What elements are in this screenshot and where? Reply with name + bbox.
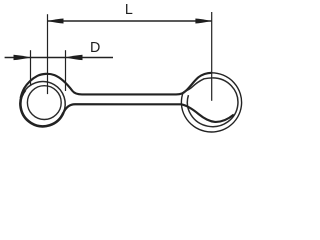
svg-text:L: L <box>125 2 133 18</box>
svg-text:D: D <box>90 40 100 56</box>
